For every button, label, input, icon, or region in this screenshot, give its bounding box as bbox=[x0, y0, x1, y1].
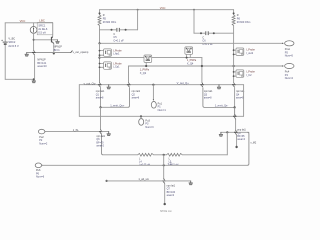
svg-text:R=300 Ohm: R=300 Ohm bbox=[237, 21, 251, 24]
svg-text:SPICE npn: SPICE npn bbox=[160, 210, 172, 212]
wire 57 right part bbox=[152, 57, 202, 59]
wire QR collector riser bbox=[128, 66, 130, 82]
ground P2 wire bbox=[107, 134, 111, 136]
svg-text:dc=0.5 V: dc=0.5 V bbox=[8, 44, 19, 48]
ground base wire left bbox=[107, 87, 111, 89]
junction X_Q2 stub P4 wire bbox=[145, 65, 147, 67]
port P4 oval bbox=[285, 63, 294, 68]
resistor R2 bbox=[232, 15, 235, 26]
junction P4 x202 bbox=[201, 65, 203, 67]
wire emit bus left bbox=[101, 106, 129, 108]
transistor QL cascode bbox=[98, 69, 102, 107]
stub probe2 pin1 bbox=[234, 71, 236, 73]
wire P4 bbox=[129, 65, 284, 67]
wire T6 base to bottom bus corner bbox=[247, 132, 249, 165]
wire bottom-left bbox=[5, 78, 34, 80]
svg-text:C=0.1 uF: C=0.1 uF bbox=[113, 40, 124, 43]
wire stub gnd T1 bbox=[26, 53, 28, 55]
svg-text:V_out_Q+: V_out_Q+ bbox=[177, 81, 190, 85]
wire QR2 emitter corner bbox=[203, 88, 205, 108]
junction C2 right bbox=[213, 32, 215, 34]
junction rail C1 bbox=[137, 9, 139, 11]
junction R2 top bbox=[233, 12, 235, 14]
junction P3 bbox=[140, 115, 142, 117]
svg-text:R: R bbox=[237, 14, 239, 17]
svg-text:I_Ap1: I_Ap1 bbox=[113, 53, 120, 56]
svg-text:Num=2: Num=2 bbox=[39, 143, 48, 146]
junction emit right bbox=[234, 106, 236, 108]
pin v_out_opamp bbox=[71, 51, 72, 53]
transistor T5b tail-right bbox=[233, 107, 237, 120]
port P6 oval bbox=[35, 163, 41, 168]
wire VCC mid rail bbox=[100, 9, 234, 11]
wire L row right bbox=[182, 154, 227, 156]
stub probe B pin1 bbox=[100, 63, 104, 65]
capacitor C1 bbox=[116, 28, 118, 32]
svg-text:Num=3: Num=3 bbox=[145, 126, 154, 129]
stub gnd base left bbox=[108, 85, 110, 87]
junction emit left bbox=[99, 106, 101, 108]
capacitor C2 bbox=[205, 31, 207, 35]
ground bottom-left bbox=[32, 81, 36, 83]
wire T4 base to gnd bbox=[102, 131, 109, 133]
svg-text:area=2: area=2 bbox=[167, 194, 175, 197]
svg-text:V_BC: V_BC bbox=[8, 37, 15, 41]
wire R2 top bbox=[233, 10, 235, 15]
subckt X_Q4 box bbox=[185, 47, 193, 54]
wire v_out to Pout bbox=[100, 42, 284, 44]
svg-text:area=8: area=8 bbox=[132, 97, 140, 100]
stub gnd base right bbox=[218, 85, 220, 87]
wire emit bus right bbox=[204, 106, 234, 108]
stub probe2 pin2 bbox=[234, 75, 236, 77]
svg-text:X_Q2: X_Q2 bbox=[140, 72, 147, 75]
end node dot W3 left bbox=[106, 180, 108, 182]
junction C1 right bbox=[125, 29, 127, 31]
wire Q1b base bbox=[34, 39, 51, 41]
end node dot T6 emitter bbox=[235, 146, 237, 148]
junction T5 collector bbox=[163, 154, 165, 156]
svg-text:R: R bbox=[103, 14, 105, 17]
wire QR2 collector riser bbox=[201, 58, 203, 83]
wire riser x243 bbox=[243, 85, 245, 117]
probe I_C2 bbox=[236, 70, 244, 77]
wire P2 to T4 base bbox=[45, 131, 99, 133]
wire VCC rail left bbox=[5, 22, 52, 24]
wire C2 right bbox=[209, 32, 233, 34]
wire C2 left bbox=[194, 32, 205, 34]
svg-text:I_Cp1: I_Cp1 bbox=[113, 66, 121, 69]
probe I_Cp1 bbox=[104, 62, 112, 69]
junction C2 left bbox=[200, 32, 202, 34]
junction R1 top bbox=[99, 12, 101, 14]
junction wire57 bbox=[98, 57, 100, 59]
wire T4 collector bbox=[100, 107, 102, 129]
svg-text:Num=5: Num=5 bbox=[285, 55, 294, 58]
ground T5 base wire bbox=[189, 183, 193, 185]
svg-text:area=8: area=8 bbox=[204, 97, 212, 100]
wire bottom bus bbox=[42, 164, 248, 166]
wire T6 base bbox=[221, 131, 249, 133]
wire R1 bottom bbox=[99, 26, 101, 44]
svg-text:0.5 uA: 0.5 uA bbox=[38, 31, 46, 35]
wire right column bbox=[233, 48, 235, 82]
svg-text:dc 4E-6: dc 4E-6 bbox=[38, 27, 47, 31]
svg-text:area=2: area=2 bbox=[96, 145, 104, 148]
port P3 oval bbox=[139, 119, 144, 126]
wire R2 bottom bbox=[233, 26, 235, 48]
junction node Q1b base bbox=[33, 39, 35, 41]
wire T5 base bbox=[107, 180, 191, 182]
transistor QR3 cascode bbox=[232, 82, 236, 116]
transistor T4 tail-left bbox=[99, 129, 103, 134]
svg-text:VCC: VCC bbox=[160, 6, 166, 10]
wire Isrc top bbox=[33, 23, 35, 27]
svg-text:R=300 Ohm: R=300 Ohm bbox=[103, 21, 117, 24]
svg-text:v_M2: v_M2 bbox=[250, 142, 257, 145]
junction left column Pout wire bbox=[98, 42, 100, 44]
stub probe A pin1 bbox=[100, 50, 104, 52]
wire R1 top bbox=[99, 10, 101, 15]
junction bottom-left bbox=[33, 78, 35, 80]
wire bus2 bbox=[79, 115, 243, 117]
wire C2 riser bbox=[193, 10, 195, 34]
svg-text:v_out_opamp: v_out_opamp bbox=[73, 50, 89, 54]
wire T4 emitter corner bbox=[102, 134, 104, 155]
wire P1 riser bbox=[152, 85, 154, 100]
wire riser x79 bbox=[78, 85, 80, 117]
wire C1 right bbox=[120, 29, 137, 31]
label frame I_BC bbox=[37, 22, 53, 34]
wire L row left bbox=[103, 154, 138, 156]
wire QR emitter corner bbox=[128, 88, 130, 108]
svg-text:1_emit_Qu+: 1_emit_Qu+ bbox=[110, 103, 125, 107]
port P2 oval bbox=[38, 129, 44, 134]
wire battery bottom bbox=[4, 45, 6, 80]
svg-text:I_out2: I_out2 bbox=[246, 52, 254, 55]
wire T5b emitter to T6 bbox=[235, 119, 237, 130]
current source I_BC bbox=[30, 27, 37, 34]
svg-text:1_IN-: 1_IN- bbox=[73, 129, 79, 132]
wire left column bbox=[99, 43, 101, 82]
wire Q1b base right stub bbox=[52, 39, 57, 41]
inductor L5 bbox=[167, 153, 183, 156]
svg-text:area=8: area=8 bbox=[236, 97, 244, 100]
stub X_Q4 pin2 bbox=[189, 54, 191, 57]
ground T1 base bbox=[25, 54, 29, 56]
svg-text:v_out_Qu-: v_out_Qu- bbox=[84, 81, 97, 85]
svg-text:SRC2: SRC2 bbox=[8, 40, 15, 44]
junction Q1b emitter / v_out wire bbox=[53, 52, 55, 54]
svg-text:I_BC: I_BC bbox=[39, 18, 45, 22]
transistor QR cascode bbox=[127, 82, 130, 88]
wire 57 left part bbox=[100, 57, 145, 59]
junction P1 riser bbox=[152, 84, 154, 86]
junction rail C2 bbox=[193, 9, 195, 11]
svg-text:Num=1: Num=1 bbox=[158, 109, 167, 112]
svg-text:Num=6: Num=6 bbox=[36, 176, 45, 179]
transistor T5 bbox=[162, 178, 166, 203]
port Pout oval bbox=[285, 41, 294, 46]
svg-text:area=4: area=4 bbox=[237, 138, 245, 141]
junction P4 x234 bbox=[233, 65, 235, 67]
inductor L4 bbox=[138, 153, 154, 156]
junction T6 base / riser bbox=[226, 131, 228, 133]
ground T6 base bbox=[219, 134, 223, 136]
wire battery top bbox=[4, 23, 6, 42]
resistor R1 bbox=[98, 15, 101, 26]
svg-text:area=10: area=10 bbox=[37, 65, 47, 68]
svg-text:1_emit_Qs-: 1_emit_Qs- bbox=[215, 104, 229, 108]
stub probe B pin2 bbox=[100, 66, 104, 68]
stub probe1 pin2 bbox=[234, 53, 236, 55]
svg-text:BF=1: BF=1 bbox=[54, 49, 61, 52]
junction bottom bus T5 bbox=[163, 164, 165, 166]
stub X_Q4 pin1 bbox=[186, 54, 188, 57]
svg-text:v_E: v_E bbox=[168, 163, 173, 166]
battery V_BC bbox=[3, 41, 8, 43]
svg-text:VCC: VCC bbox=[20, 19, 26, 23]
transistor QR2 cascode bbox=[200, 82, 204, 88]
subckt X_Q2 box bbox=[144, 55, 152, 62]
stub probe1 pin1 bbox=[234, 49, 236, 51]
end node dot T5 emitter bbox=[164, 203, 166, 205]
svg-text:Num=4: Num=4 bbox=[285, 77, 294, 80]
svg-text:area=8: area=8 bbox=[96, 97, 104, 100]
svg-text:I_C2: I_C2 bbox=[246, 74, 252, 77]
svg-text:X_Q4: X_Q4 bbox=[187, 62, 194, 65]
port P1 oval bbox=[151, 101, 156, 108]
transistor T6 bbox=[234, 130, 238, 147]
stub probe A pin2 bbox=[100, 54, 104, 56]
wire v_out_opamp bbox=[27, 52, 71, 54]
wire Isrc bottom bbox=[33, 33, 35, 50]
junction X_Q4 bbox=[186, 57, 188, 59]
wire C1 left bbox=[100, 29, 116, 31]
svg-text:SRC1: SRC1 bbox=[38, 23, 45, 27]
stub X_Q2 bottom bbox=[145, 62, 147, 66]
ground Q1b base bbox=[56, 41, 60, 43]
junction C1 left bbox=[111, 29, 113, 31]
wire C1 riser bbox=[137, 10, 139, 30]
wire cascode base bus bbox=[79, 84, 243, 86]
wire T5 collector bbox=[163, 155, 165, 179]
probe I_Ap1 bbox=[104, 49, 112, 56]
transistor Q1b bbox=[51, 23, 54, 54]
ground base wire right bbox=[217, 87, 221, 89]
transistor T1 bias bbox=[32, 50, 36, 79]
wire between L4 L5 bbox=[153, 154, 166, 156]
svg-text:1_ab_uA: 1_ab_uA bbox=[138, 177, 149, 181]
wire riser x227 bbox=[226, 132, 228, 155]
probe I_out2 bbox=[236, 48, 244, 55]
